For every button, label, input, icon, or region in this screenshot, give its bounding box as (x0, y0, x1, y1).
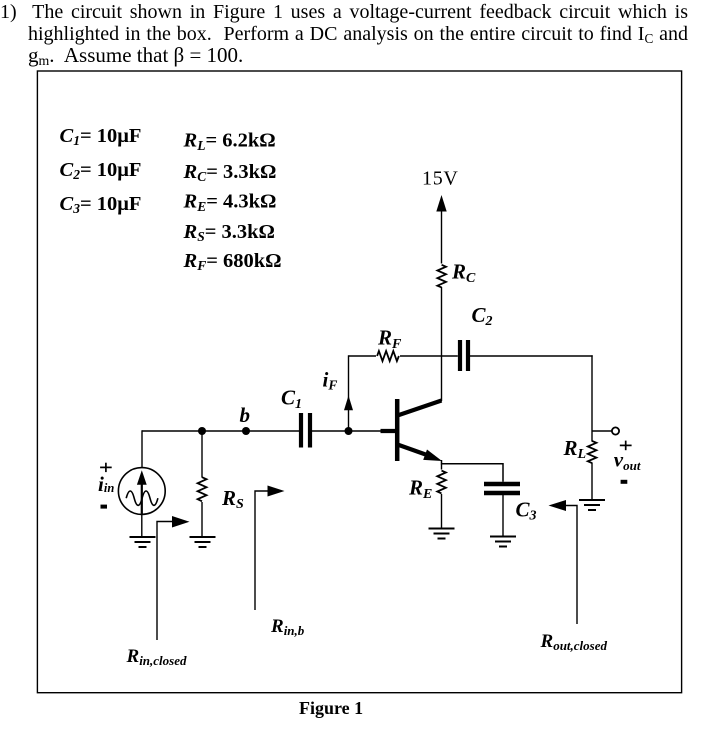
pointer Rin,b arrow (268, 486, 285, 497)
resistor RC (437, 265, 446, 288)
svg-text:iF: iF (323, 368, 338, 393)
svg-text:RS: RS (221, 486, 244, 512)
capacitor C1 (299, 413, 303, 448)
svg-text:C2: C2 (472, 303, 493, 329)
current arrow iF (344, 396, 353, 411)
svg-text:RL: RL (563, 436, 587, 462)
pointer Rout,closed line (563, 506, 577, 625)
current source arrow stem (141, 482, 143, 514)
svg-text:Rin,b: Rin,b (270, 616, 305, 638)
svg-text:Rout,closed: Rout,closed (540, 631, 608, 653)
problem statement text (0, 1, 688, 73)
node b (242, 427, 250, 435)
emitter node wire (442, 460, 504, 482)
wire RE to ground (441, 494, 443, 528)
input wire from source to C1 (142, 430, 300, 432)
resistor RS (198, 477, 207, 501)
svg-text:C1= 10μF: C1= 10μF (60, 125, 142, 148)
top horizontal wire (collector node) (349, 355, 377, 357)
label - iin (101, 505, 108, 509)
wire RS (201, 431, 203, 478)
svg-text:RE: RE (408, 476, 432, 502)
wire RS to ground (201, 502, 203, 537)
wire RC to collector (441, 287, 443, 401)
svg-text:Rin,closed: Rin,closed (126, 646, 187, 668)
svg-text:RC: RC (451, 260, 476, 286)
supply arrow 15V (436, 195, 446, 212)
current source arrow head (137, 470, 147, 484)
wire C2 to output (470, 355, 593, 357)
svg-text:RS= 3.3kΩ: RS= 3.3kΩ (183, 221, 275, 244)
label - vout (621, 480, 628, 484)
output terminal (612, 427, 619, 434)
ground RE (429, 529, 455, 539)
pointer Rin,closed line (157, 522, 174, 641)
wire RF to C2 (400, 355, 458, 357)
pointer Rin,b line (255, 491, 269, 610)
Figure 1 caption (299, 698, 363, 719)
label + vout (620, 441, 632, 451)
transistor Q1 base bar (395, 399, 400, 461)
capacitor C3 (484, 482, 520, 487)
output stub (592, 430, 612, 432)
svg-text:C3: C3 (516, 498, 537, 524)
svg-text:C1: C1 (281, 386, 302, 412)
resistor RL (588, 441, 597, 463)
wire C1 to base (312, 430, 381, 432)
svg-text:RF= 680kΩ: RF= 680kΩ (183, 250, 282, 273)
ground source (130, 537, 156, 547)
svg-text:iin: iin (98, 472, 114, 496)
svg-text:RC= 3.3kΩ: RC= 3.3kΩ (183, 161, 277, 184)
pointer Rin,closed arrow (172, 516, 190, 528)
transistor Q1 base lead (381, 429, 398, 433)
output vertical wire (591, 355, 593, 441)
feedback wire down from RF (348, 355, 350, 428)
transistor Q1 emitter arrow (423, 450, 442, 462)
wire source to ground (141, 514, 143, 537)
transistor Q1 emitter lead (398, 445, 435, 458)
pointer Rout,closed arrow (549, 500, 567, 511)
svg-text:b: b (240, 403, 251, 427)
svg-text:C3= 10μF: C3= 10μF (60, 193, 142, 216)
ground RS (190, 537, 216, 547)
svg-text:15V: 15V (422, 168, 459, 190)
label + iin (100, 463, 112, 472)
wire C3 to ground (502, 495, 504, 536)
current source circle (118, 468, 165, 515)
transistor Q1 collector lead (398, 401, 442, 416)
wire RL to ground (591, 463, 593, 501)
svg-text:vout: vout (614, 448, 641, 474)
capacitor C2 (458, 340, 462, 371)
wire emitter to RE (441, 464, 443, 470)
current source sine (126, 491, 158, 505)
ground RL (579, 500, 605, 510)
svg-text:RE= 4.3kΩ: RE= 4.3kΩ (183, 191, 277, 214)
figure border box (37, 71, 681, 693)
junction node at RS (198, 427, 206, 435)
resistor RE (437, 471, 446, 494)
svg-text:RL= 6.2kΩ: RL= 6.2kΩ (183, 130, 276, 153)
resistor RF (377, 351, 399, 361)
wire supply to RC (441, 208, 443, 264)
junction node iF/base (345, 427, 353, 435)
svg-text:RF: RF (377, 326, 402, 352)
wire corner down to source (141, 430, 143, 468)
ground C3 (490, 537, 516, 547)
svg-text:C2= 10μF: C2= 10μF (60, 159, 142, 182)
